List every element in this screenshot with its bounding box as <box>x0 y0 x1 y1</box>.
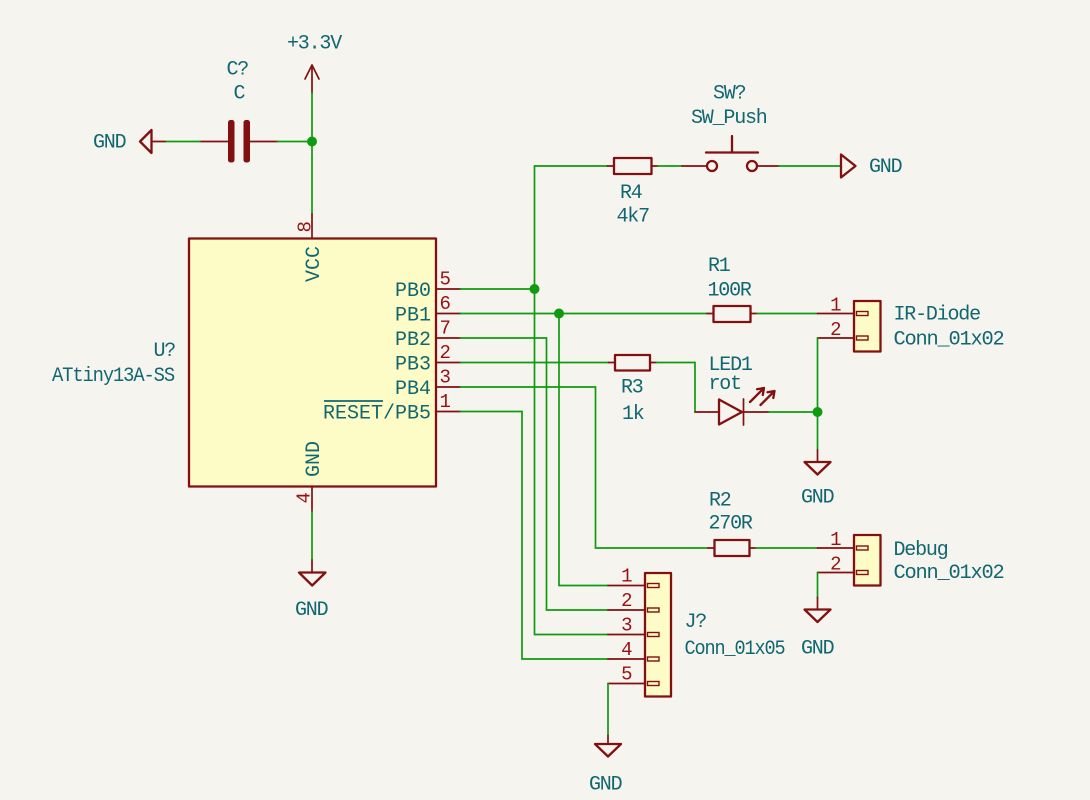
svg-text:C: C <box>234 83 246 106</box>
pin 7 PB2 <box>395 318 461 353</box>
wire R4 row horizontal <box>535 165 608 167</box>
wire GND to capacitor <box>165 141 200 143</box>
wire PB3 to R3 <box>461 362 609 364</box>
wire R4 to switch <box>658 165 682 167</box>
pin 5 PB0 <box>395 269 461 304</box>
svg-text:7: 7 <box>440 318 451 340</box>
svg-text:GND: GND <box>801 638 834 661</box>
svg-text:SW?: SW? <box>713 83 746 106</box>
resistor R4 <box>608 158 659 229</box>
svg-text:U?: U? <box>154 340 176 363</box>
wire IR-Diode pin2 down to LED junction <box>817 338 819 412</box>
connector Debug Conn_01x02 <box>818 529 1004 586</box>
svg-text:Conn_01x02: Conn_01x02 <box>894 329 1004 352</box>
svg-text:100R: 100R <box>708 280 752 303</box>
svg-text:Conn_01x05: Conn_01x05 <box>685 638 785 661</box>
svg-text:IR-Diode: IR-Diode <box>894 304 981 327</box>
wire capacitor to junction <box>278 141 313 143</box>
svg-text:PB3: PB3 <box>395 354 431 377</box>
svg-text:4k7: 4k7 <box>617 206 650 229</box>
pin 6 PB1 <box>395 293 461 328</box>
svg-text:270R: 270R <box>709 513 753 536</box>
junction at +3.3V / capacitor <box>307 137 317 147</box>
resistor R1 <box>707 255 757 322</box>
ground symbol below LED <box>801 412 834 510</box>
svg-text:1k: 1k <box>622 403 644 426</box>
wire R3 to LED <box>657 363 696 413</box>
svg-text:GND: GND <box>295 599 328 622</box>
svg-text:4: 4 <box>621 639 632 661</box>
svg-text:3: 3 <box>440 367 451 389</box>
wire PB0 to junction <box>461 288 535 290</box>
svg-text:GND: GND <box>303 441 326 477</box>
svg-text:Debug: Debug <box>894 539 948 562</box>
svg-text:4: 4 <box>294 492 316 503</box>
connector J? Conn_01x05 <box>608 566 785 697</box>
ground flag right of switch <box>841 155 902 180</box>
capacitor C? <box>200 59 278 163</box>
svg-text:ATtiny13A-SS: ATtiny13A-SS <box>52 365 175 388</box>
wire PB2 to J pin2 <box>461 338 609 610</box>
wire switch to GND flag <box>779 165 841 167</box>
svg-text:PB1: PB1 <box>395 305 431 328</box>
svg-text:2: 2 <box>830 319 841 341</box>
ground symbol below IC <box>295 512 328 622</box>
svg-text:1: 1 <box>440 391 451 413</box>
switch SW? SW_Push <box>682 83 779 172</box>
junction LED / IR-Diode / GND <box>813 407 823 417</box>
wire +3.3V to VCC pin <box>311 93 313 214</box>
svg-text:SW_Push: SW_Push <box>691 107 767 130</box>
svg-text:GND: GND <box>589 774 622 797</box>
ground symbol below Debug <box>801 573 834 661</box>
svg-text:5: 5 <box>440 269 451 291</box>
pin 3 PB4 <box>395 367 461 402</box>
op-amp U? ATtiny13A-SS body <box>189 239 436 487</box>
svg-text:1: 1 <box>830 529 841 551</box>
connector IR-Diode Conn_01x02 <box>818 295 1004 352</box>
ground symbol left (GND flag) <box>93 130 165 155</box>
wire vertical x534.5 R4 row to J pin3 <box>535 166 609 635</box>
junction PB1 <box>554 309 564 319</box>
ground symbol below J? <box>589 684 622 797</box>
wire PB4 to R2 <box>461 387 709 548</box>
svg-text:2: 2 <box>440 342 451 364</box>
wire PB1 to junction <box>461 313 560 315</box>
svg-text:Conn_01x02: Conn_01x02 <box>894 562 1004 585</box>
svg-text:PB2: PB2 <box>395 329 431 352</box>
svg-text:GND: GND <box>801 487 834 510</box>
wire R1 to IR-Diode pin1 <box>757 313 818 315</box>
svg-text:rot: rot <box>709 373 741 396</box>
svg-text:PB0: PB0 <box>395 280 431 303</box>
svg-text:GND: GND <box>869 156 902 179</box>
junction PB0 <box>530 284 540 294</box>
pin 1 RESET/PB5 <box>323 391 461 426</box>
svg-text:C?: C? <box>227 59 249 82</box>
svg-text:+3.3V: +3.3V <box>287 33 342 56</box>
LED LED1 rot <box>695 354 775 425</box>
resistor R2 <box>708 490 756 557</box>
svg-text:1: 1 <box>621 566 632 588</box>
wire R2 to Debug pin1 <box>756 547 818 549</box>
wire PB1 junction to R1 <box>559 313 707 315</box>
pin 4 GND <box>294 441 327 512</box>
svg-text:R1: R1 <box>708 255 731 278</box>
wire PB1 junction down to J pin1 <box>559 314 608 586</box>
svg-text:RESET/PB5: RESET/PB5 <box>323 403 431 426</box>
svg-text:R3: R3 <box>621 377 643 400</box>
svg-text:R2: R2 <box>709 490 731 513</box>
svg-text:5: 5 <box>621 664 632 686</box>
svg-text:VCC: VCC <box>303 246 326 282</box>
wire LED to junction <box>769 411 818 413</box>
svg-text:R4: R4 <box>620 182 642 205</box>
svg-text:8: 8 <box>295 221 317 232</box>
resistor R3 <box>609 355 657 426</box>
svg-text:3: 3 <box>621 615 632 637</box>
svg-text:6: 6 <box>440 293 451 315</box>
svg-text:PB4: PB4 <box>395 378 431 401</box>
power +3.3V <box>287 33 342 94</box>
svg-text:2: 2 <box>621 590 632 612</box>
svg-text:2: 2 <box>830 554 841 576</box>
pin 8 VCC <box>295 214 327 282</box>
svg-text:1: 1 <box>830 295 841 317</box>
svg-text:GND: GND <box>93 132 126 155</box>
pin 2 PB3 <box>395 342 461 377</box>
wire RESET/PB5 to J pin4 <box>461 412 609 660</box>
svg-text:J?: J? <box>685 611 707 634</box>
